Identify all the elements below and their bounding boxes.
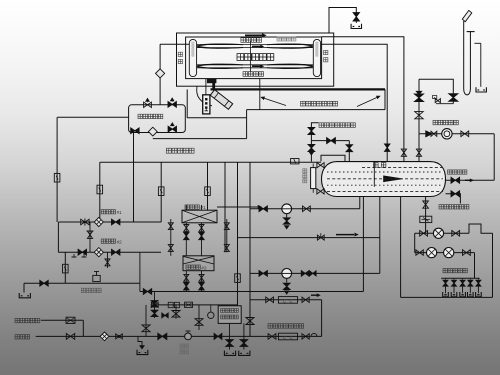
svg-text:C: C — [290, 335, 293, 340]
svg-text:#2: #2 — [117, 239, 123, 244]
svg-text:C: C — [283, 335, 286, 340]
svg-text:C: C — [290, 298, 293, 303]
svg-text:#2: #2 — [201, 265, 207, 270]
svg-text:#1: #1 — [117, 210, 123, 215]
svg-text:C: C — [283, 298, 286, 303]
